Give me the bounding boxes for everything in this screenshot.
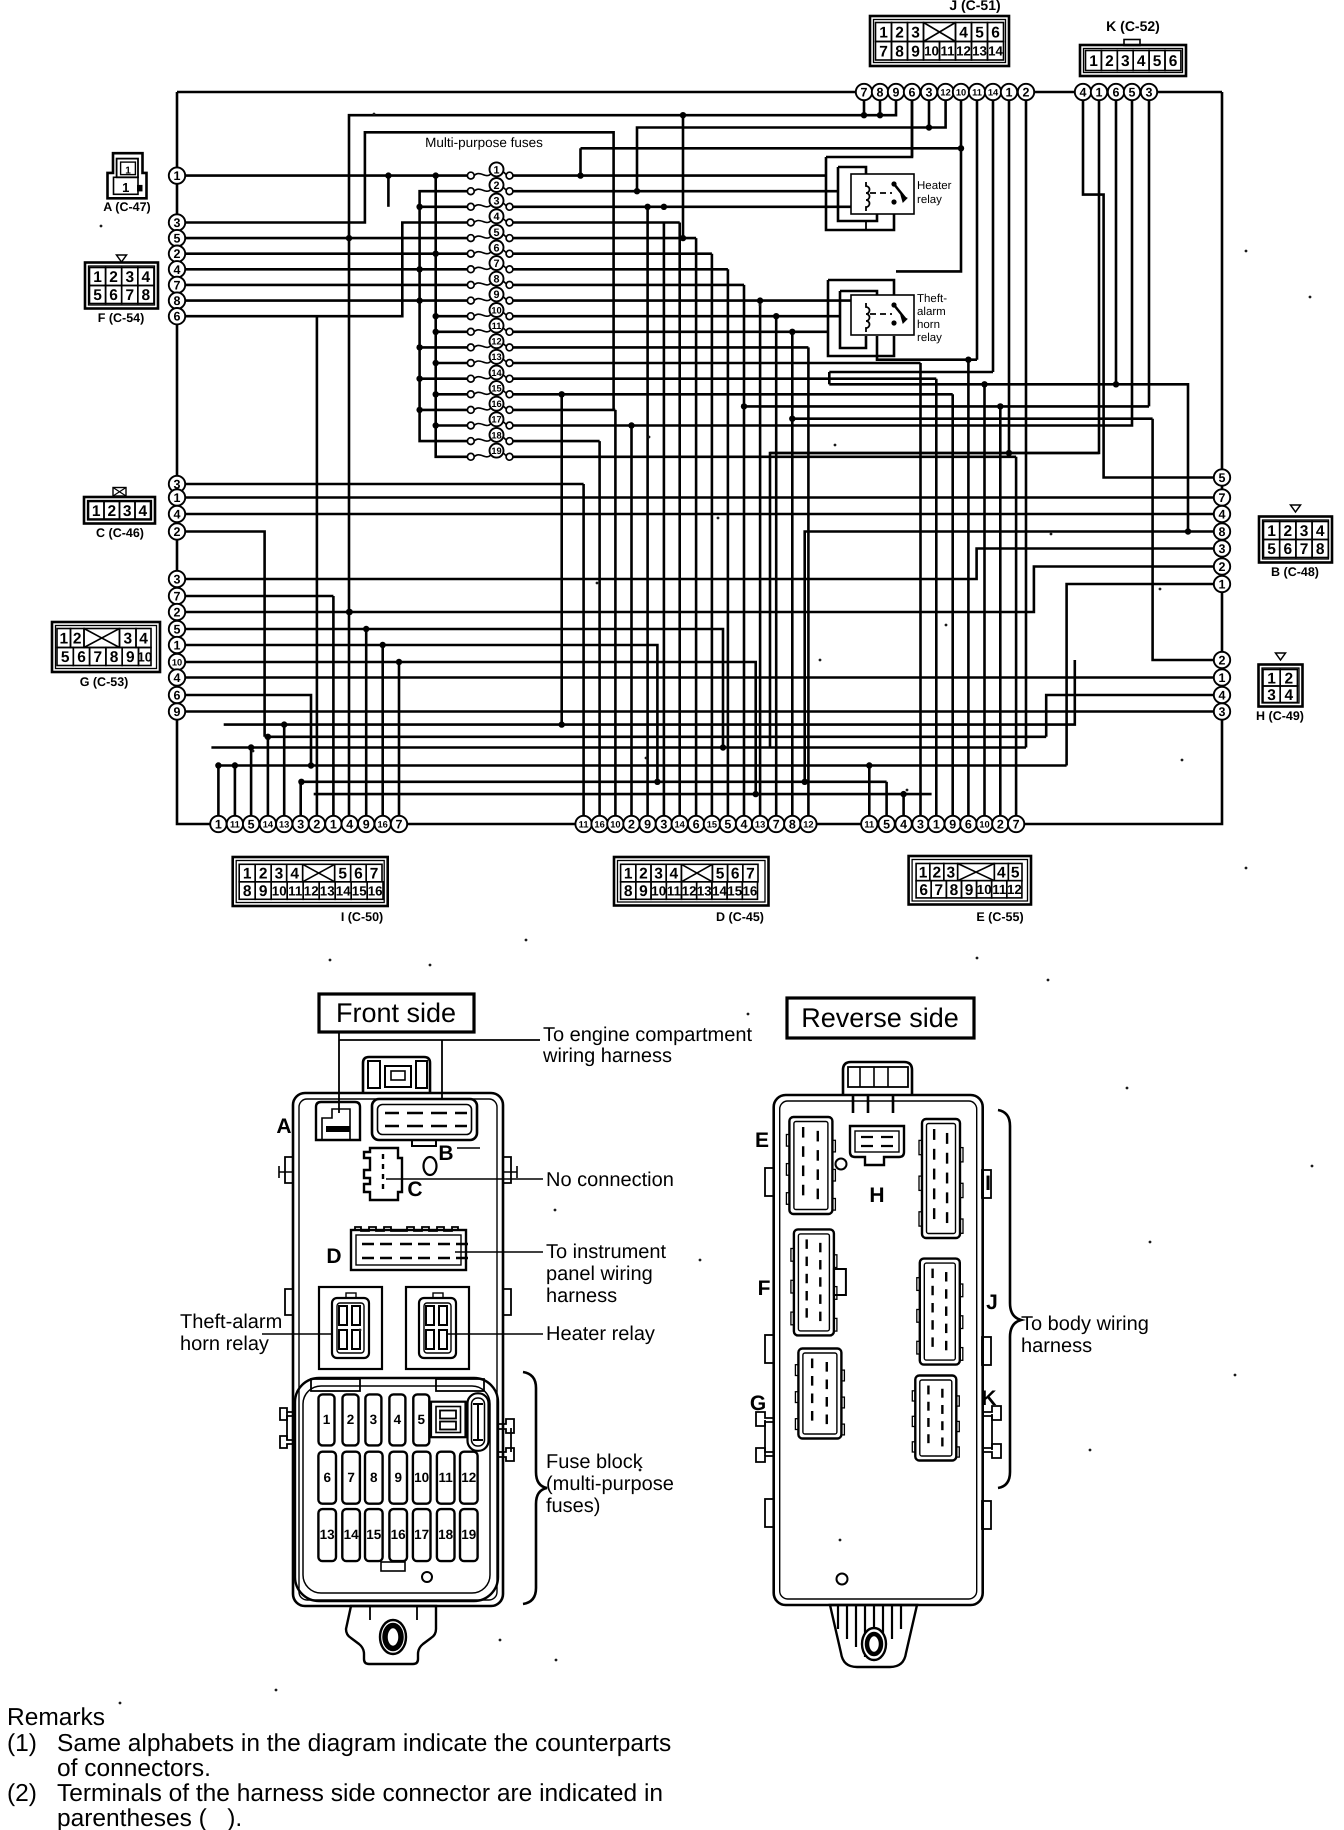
node J7 top terminal [856,84,872,100]
node H1 right terminal [1214,669,1230,685]
node B3 right terminal [1214,540,1230,556]
svg-text:11: 11 [940,44,955,59]
wire G3 to B3 [177,549,1214,580]
svg-text:9: 9 [639,883,648,900]
svg-text:12: 12 [940,87,950,97]
front right clip [498,1419,514,1461]
wire fuse 3 left lead [420,206,467,209]
leader to engine harness [338,1032,340,1113]
svg-text:6: 6 [1283,541,1292,558]
node D8 bottom terminal [784,816,800,832]
svg-text:9: 9 [394,1470,402,1485]
svg-text:5: 5 [174,232,181,246]
wire drop D [598,441,601,816]
fuse 10 [467,303,513,320]
svg-text:16: 16 [378,819,388,829]
node C1 left terminal [169,489,185,505]
wire K6 drop [1115,100,1118,384]
node B1 right terminal [1214,576,1230,592]
svg-text:6: 6 [174,689,181,703]
svg-text:11: 11 [230,819,240,829]
svg-text:1: 1 [122,180,129,195]
wire left trunk [177,92,210,824]
wire H4 [1046,695,1214,737]
wire drop D [775,316,778,816]
wire mesh h794 [314,793,932,796]
svg-text:8: 8 [789,818,796,832]
wire fuse1 lead drop [387,176,390,207]
svg-text:7: 7 [93,649,102,666]
no connection leader [386,1178,543,1180]
front top connector [363,1057,430,1093]
node G7 left terminal [169,588,185,604]
wire J1 drop [1008,100,1011,453]
svg-text:7: 7 [1013,818,1020,832]
svg-text:3: 3 [911,25,920,42]
wire G10 [177,662,756,794]
svg-text:6: 6 [731,866,740,883]
svg-text:2: 2 [174,247,181,261]
wire fuse1 riser [579,148,582,175]
svg-text:5: 5 [248,818,255,832]
svg-text:5: 5 [338,866,347,883]
svg-text:1: 1 [1219,578,1226,592]
node E6 bottom terminal [960,816,976,832]
wire mesh h747 [211,746,1026,749]
reverse connector K [912,1376,959,1461]
svg-text:9: 9 [965,882,974,899]
svg-text:8: 8 [110,649,119,666]
svg-text:5: 5 [1153,53,1162,70]
svg-text:1: 1 [93,269,102,286]
svg-text:13: 13 [320,1527,336,1542]
wire drop D [663,223,666,817]
svg-text:2: 2 [347,1412,355,1427]
svg-text:10: 10 [924,44,939,59]
svg-text:parentheses ( ).: parentheses ( ). [57,1805,242,1830]
svg-text:2: 2 [639,866,648,883]
node E9 bottom terminal [945,816,961,832]
fuse 11 [467,319,513,336]
oval mark [424,1157,437,1175]
svg-text:To instrument: To instrument [546,1241,666,1263]
wire F7 to fuse 8 [177,284,467,287]
svg-text:14: 14 [675,819,686,829]
node K4 top terminal [1075,84,1091,100]
svg-text:7: 7 [746,866,755,883]
fuse slot 7 [342,1452,360,1504]
fuse slot 2 [343,1394,359,1445]
svg-text:9: 9 [363,818,370,832]
svg-text:5: 5 [174,623,181,637]
svg-text:14: 14 [344,1527,360,1542]
svg-text:6: 6 [991,25,1000,42]
fuse 1 [467,162,513,179]
svg-text:7: 7 [125,287,134,304]
wire F6 riser to fuse 4 [177,223,467,317]
svg-text:13: 13 [320,883,335,898]
node J12 top terminal [937,84,953,100]
wire fuse 4 right lead [513,221,680,224]
svg-text:6: 6 [77,649,86,666]
svg-text:7: 7 [174,590,181,604]
svg-text:5: 5 [975,25,984,42]
fuse slot 1 [319,1394,335,1445]
node G6 left terminal [169,687,185,703]
node J3 top terminal [921,84,937,100]
svg-text:relay: relay [917,194,942,206]
svg-text:14: 14 [988,44,1003,59]
wire K1 drop [770,100,1099,748]
svg-text:11: 11 [492,321,502,331]
svg-text:15: 15 [707,819,717,829]
wire drop I [283,725,286,816]
wire K3 drop [1148,100,1151,406]
wire J11 drop [976,100,979,360]
svg-text:Terminals of the harness side: Terminals of the harness side connector … [57,1780,663,1807]
svg-text:Heater relay: Heater relay [546,1323,655,1345]
wire H2 [1153,419,1214,660]
node G5 left terminal [169,621,185,637]
svg-text:1: 1 [174,169,181,183]
wire outer loop top bus [177,91,1222,94]
svg-text:9: 9 [644,818,651,832]
connector F (C-54) [117,255,127,262]
fuse 16 [467,397,513,414]
fuse slot 16 [389,1509,407,1561]
wire G6 [177,695,311,766]
svg-text:2: 2 [313,818,320,832]
wire G1 [177,645,657,782]
svg-text:of connectors.: of connectors. [57,1755,211,1782]
svg-text:J: J [986,1291,998,1314]
node G1 left terminal [169,637,185,653]
svg-text:C (C-46): C (C-46) [96,526,144,540]
reverse connector I [919,1119,963,1238]
svg-text:A (C-47): A (C-47) [103,200,150,214]
node H4 right terminal [1214,687,1230,703]
connector G (C-53) [52,622,160,672]
node J14 top terminal [985,84,1001,100]
node F6 left terminal [169,308,185,324]
svg-text:5: 5 [93,287,102,304]
connector I (C-50) [233,857,388,906]
wire G7 [177,595,333,598]
wire A1 to fuse 1 [177,174,467,177]
svg-text:5: 5 [724,818,731,832]
wire drop D [711,254,714,816]
svg-text:8: 8 [1316,541,1325,558]
svg-text:15: 15 [727,883,742,898]
reverse connector J [917,1259,963,1365]
wire B1 [1067,584,1214,766]
wire drop I [250,748,253,817]
reverse right big clip [983,1406,1001,1458]
wire fuse 2 right lead [513,190,838,193]
svg-text:13: 13 [755,819,765,829]
svg-text:15: 15 [491,383,501,393]
connector C (C-46) [113,488,126,497]
svg-text:3: 3 [174,573,181,587]
svg-text:2: 2 [1219,560,1226,574]
node E11 bottom terminal [861,816,877,832]
node I2 bottom terminal [309,816,325,832]
node K3 top terminal [1141,84,1157,100]
svg-text:alarm: alarm [917,306,946,318]
svg-text:8: 8 [493,274,499,286]
wire drop D [678,223,681,817]
fuse 17 [467,412,513,429]
svg-text:G (C-53): G (C-53) [80,675,129,689]
svg-text:Theft-: Theft- [917,293,947,305]
svg-text:2: 2 [259,866,268,883]
svg-text:11: 11 [439,1470,454,1485]
svg-text:H (C-49): H (C-49) [1256,709,1304,723]
wire drop D [743,285,746,816]
svg-text:1: 1 [919,865,928,882]
fuse slot 17 [413,1509,431,1561]
wire mesh h406 [744,405,1149,408]
svg-text:Heater: Heater [917,180,952,192]
fuse slot 15 [365,1509,383,1561]
wire fuse 12 right lead [513,346,808,349]
fuse 18 [467,428,513,445]
fuse slot 10 [413,1452,431,1504]
reverse connector G [795,1349,844,1439]
wire mesh h765 [218,764,1066,767]
svg-text:7: 7 [347,1470,355,1485]
wire drop to fuse5 [682,115,685,238]
wire fuse 10 right lead [513,315,776,318]
wire drop I [316,316,319,816]
svg-text:10: 10 [137,649,152,664]
svg-text:9: 9 [493,289,499,301]
wire J9 bus [349,100,896,816]
wire drop D [630,426,633,817]
node E4 bottom terminal [895,816,911,832]
svg-text:4: 4 [174,263,181,277]
svg-text:C: C [407,1178,422,1201]
node D14 bottom terminal [672,816,688,832]
svg-text:15: 15 [352,883,367,898]
svg-text:10: 10 [272,883,287,898]
wire J2 drop [1025,100,1028,748]
svg-text:B (C-48): B (C-48) [1271,565,1319,579]
svg-text:12: 12 [682,883,697,898]
wire fuse 9 right lead [513,299,851,302]
svg-text:No connection: No connection [546,1169,674,1191]
svg-text:To body wiring: To body wiring [1021,1313,1149,1335]
svg-text:1: 1 [59,631,68,648]
svg-text:2: 2 [628,818,635,832]
node D2 bottom terminal [623,816,639,832]
svg-text:4: 4 [1219,689,1226,703]
svg-text:panel wiring: panel wiring [546,1263,653,1285]
svg-text:18: 18 [438,1527,454,1542]
fuse 19 [467,444,513,461]
node E2 bottom terminal [992,816,1008,832]
svg-text:11: 11 [579,819,589,829]
wire drop E [999,406,1002,816]
svg-text:8: 8 [624,883,633,900]
svg-text:To engine compartment: To engine compartment [543,1024,752,1046]
svg-text:10: 10 [491,305,501,315]
svg-text:5: 5 [1129,86,1136,100]
svg-text:1: 1 [125,166,131,177]
svg-text:1: 1 [1096,86,1103,100]
wire J3 stub [928,100,931,128]
svg-text:1: 1 [879,25,888,42]
svg-text:16: 16 [594,819,604,829]
svg-text:2: 2 [73,631,82,648]
pill connector [468,1393,489,1451]
wire J6 stub [911,100,914,157]
svg-text:6: 6 [919,882,928,899]
fuse slot 4 [389,1394,405,1445]
node F8 left terminal [169,292,185,308]
svg-text:6: 6 [109,287,118,304]
wire fuse 6 right lead [513,252,712,255]
svg-text:2: 2 [895,25,904,42]
node E10 bottom terminal [976,816,992,832]
wire drop E [983,384,986,816]
wire C3 [177,483,584,486]
wire fuse 11 right lead [513,330,792,333]
svg-text:7: 7 [1219,491,1226,505]
wire drop D [807,347,810,816]
scan specks (decorative) [373,113,376,116]
wire fuse 14 left lead [420,377,467,380]
fuse 6 [467,241,513,258]
svg-text:3: 3 [125,269,134,286]
fuse 8 [467,272,513,289]
svg-text:D: D [326,1245,341,1268]
svg-text:17: 17 [491,415,501,425]
svg-text:8: 8 [895,43,904,60]
wire J7 stub [863,100,866,115]
svg-text:I: I [985,1172,991,1195]
svg-text:4: 4 [669,866,678,883]
wire C4 to B4 [177,513,1214,516]
svg-text:2: 2 [107,503,116,520]
wire fuse 16 left lead [420,409,467,412]
node E7 bottom terminal [1008,816,1024,832]
svg-text:7: 7 [773,818,780,832]
node J8 top terminal [872,84,888,100]
svg-text:7: 7 [879,43,888,60]
wire fuse 12 left lead [420,346,467,349]
svg-text:10: 10 [651,883,666,898]
connector B (C-48) [1291,505,1301,512]
node D16 bottom terminal [591,816,607,832]
svg-text:12: 12 [803,819,813,829]
front connector D [351,1227,468,1270]
wire drop I [365,629,368,816]
front heater relay socket [406,1287,469,1369]
fuse 7 [467,256,513,273]
node B7 right terminal [1214,489,1230,505]
svg-text:1: 1 [493,164,499,176]
svg-text:2: 2 [1023,86,1030,100]
svg-text:(multi-purpose: (multi-purpose [546,1473,674,1495]
svg-text:11: 11 [288,883,303,898]
node I1 bottom terminal [210,816,226,832]
wire K5 drop [513,100,1132,426]
wire K4 to B5 [1083,100,1214,478]
wire fuse 1 right lead [513,174,826,177]
wire drop I [381,645,384,816]
wire fuse 18 right lead [513,440,600,443]
svg-text:3: 3 [1300,523,1309,540]
svg-text:2: 2 [109,269,118,286]
svg-text:4: 4 [138,503,147,520]
svg-text:1: 1 [243,866,252,883]
wire drop D [582,484,585,816]
reverse connector E [786,1117,835,1214]
svg-text:3: 3 [917,818,924,832]
reverse top connector [843,1062,912,1113]
svg-text:4: 4 [997,865,1006,882]
svg-text:10: 10 [977,882,992,897]
reverse connector H [850,1126,904,1165]
node G4 left terminal [169,669,185,685]
svg-text:1: 1 [174,491,181,505]
svg-text:H: H [869,1184,884,1207]
svg-text:5: 5 [1267,541,1276,558]
svg-text:Remarks: Remarks [7,1704,105,1731]
node F2 left terminal [169,246,185,262]
node J10 top terminal [953,84,969,100]
svg-text:6: 6 [174,310,181,324]
wire theft feed2 [776,315,840,318]
node D3 bottom terminal [656,816,672,832]
svg-text:6: 6 [909,86,916,100]
node I5 bottom terminal [243,816,259,832]
svg-text:13: 13 [697,883,712,898]
svg-text:3: 3 [275,866,284,883]
svg-text:3: 3 [174,216,181,230]
svg-text:4: 4 [900,818,907,832]
reverse connector F [791,1229,837,1335]
svg-text:Reverse side: Reverse side [801,1003,959,1033]
wire G4 to H1 [177,676,1214,679]
svg-text:3: 3 [1219,542,1226,556]
reverse body [774,1095,983,1605]
wire fuse 10 left lead [436,315,467,318]
fuse slot 5 [413,1394,429,1445]
svg-text:6: 6 [965,818,972,832]
svg-text:13: 13 [972,44,987,59]
node I13 bottom terminal [276,816,292,832]
wire fuse 7 right lead [513,268,728,271]
svg-text:19: 19 [461,1527,476,1542]
wire fuse 5 right lead [513,237,696,240]
svg-text:5: 5 [61,649,70,666]
wire mesh h736 [265,735,1047,738]
svg-text:15: 15 [366,1527,382,1542]
svg-text:12: 12 [491,337,501,347]
node K1 top terminal [1091,84,1107,100]
svg-text:1: 1 [92,503,101,520]
svg-text:3: 3 [123,503,132,520]
fuse 3 [467,194,513,211]
node E5 bottom terminal [878,816,894,832]
svg-text:14: 14 [263,819,274,829]
wire drop E [967,360,970,816]
svg-text:5: 5 [418,1412,426,1427]
svg-text:16: 16 [368,883,383,898]
svg-text:6: 6 [693,818,700,832]
